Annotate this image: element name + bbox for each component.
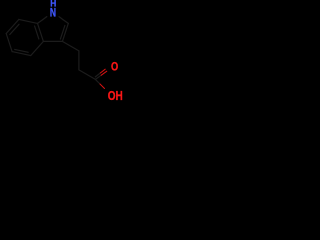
wire C-OH bond dark half	[95, 79, 100, 84]
wire double bond inner C6=C7	[10, 24, 19, 34]
wire benzene ring C6-C7	[6, 19, 19, 33]
wire N-C2 bond blue half	[59, 17, 63, 20]
svg-text:OH: OH	[108, 88, 123, 103]
svg-text:N: N	[50, 6, 56, 20]
wire pyrrole C3-C3a	[43, 40, 62, 42]
wire pyrrole C2-C3	[62, 23, 68, 41]
wire benzene ring C3a-C4	[31, 41, 44, 55]
wire chain bond Ca-Cb	[78, 51, 80, 70]
wire benzene ring C5-C6	[6, 34, 12, 52]
wire C=O double bond line2 dark half	[95, 73, 100, 77]
svg-text:O: O	[111, 59, 118, 73]
wire C=O double bond line2 red half	[100, 69, 105, 73]
wire benzene ring C7-C7a	[19, 19, 38, 23]
wire N-C2 bond dark half	[63, 20, 68, 24]
wire chain bond C3-Ca	[62, 41, 79, 51]
wire double bond inner C7a=C3a	[35, 26, 39, 39]
wire chain bond Cb-Cc	[79, 70, 96, 80]
wire C-OH bond red half	[100, 84, 105, 89]
wire double bond inner C2=C3	[60, 25, 65, 39]
molecule: 3-(1H-indol-3-yl)propanoic acid on black background	[0, 0, 128, 107]
wire N-C7a bond blue half	[43, 17, 47, 20]
wire N-C7a bond dark half	[38, 20, 43, 24]
wire C=O double bond line1 dark half	[95, 75, 101, 79]
wire benzene ring C4-C5	[12, 52, 31, 56]
wire fusion bond C7a-C3a	[38, 23, 44, 41]
wire C=O double bond line1 red half	[101, 71, 107, 75]
wire double bond inner C4=C5	[15, 49, 29, 52]
